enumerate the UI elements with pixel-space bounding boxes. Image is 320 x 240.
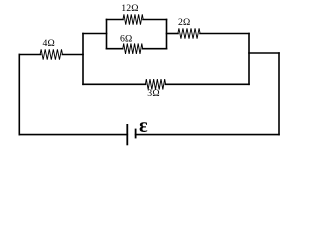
wire: 2ohm to right junction	[200, 33, 249, 35]
resistor 2ohm	[178, 28, 200, 38]
wire: right stub to junction	[249, 52, 279, 54]
battery long plate	[126, 124, 128, 145]
wire: box top left segment	[107, 19, 124, 21]
svg-text:ɛ: ɛ	[139, 115, 148, 137]
wire: right junction vertical	[248, 34, 250, 85]
wire: 3ohm branch left segment	[83, 83, 146, 85]
wire: box top right segment	[143, 19, 167, 21]
resistor 6ohm	[123, 44, 143, 54]
wire: left junction vertical	[82, 34, 84, 85]
svg-text:4Ω: 4Ω	[43, 38, 56, 49]
svg-text:12Ω: 12Ω	[121, 3, 139, 14]
svg-text:2Ω: 2Ω	[178, 17, 191, 28]
wire: 4ohm branch left segment	[19, 54, 40, 56]
wire: right vertical	[278, 53, 280, 135]
wire: box right to 2ohm	[167, 33, 179, 35]
resistor 4ohm	[40, 49, 62, 59]
battery short plate	[135, 129, 137, 139]
wire: mid-left into parallel box	[83, 33, 107, 35]
resistor 12ohm	[123, 14, 143, 24]
wire: parallel box right edge	[166, 20, 168, 49]
svg-text:6Ω: 6Ω	[120, 33, 133, 44]
wire: box bottom left segment	[107, 48, 123, 50]
wire: battery to bottom right	[136, 134, 279, 136]
wire: parallel box left edge	[106, 20, 108, 49]
wire: left vertical	[18, 55, 20, 135]
wire: 3ohm branch right segment	[166, 83, 250, 85]
resistor 3ohm	[145, 79, 165, 89]
wire: bottom left to battery	[19, 134, 127, 136]
wire: 4ohm branch right segment	[62, 54, 83, 56]
wire: box bottom right segment	[143, 48, 167, 50]
svg-text:3Ω: 3Ω	[147, 88, 160, 99]
